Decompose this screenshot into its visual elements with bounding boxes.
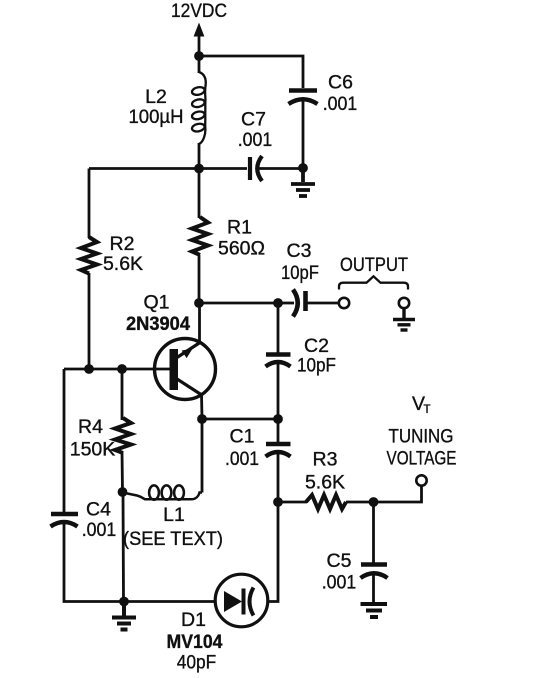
svg-text:2N3904: 2N3904 [126, 313, 190, 335]
svg-text:(SEE TEXT): (SEE TEXT) [123, 528, 223, 550]
ground (output return) [393, 309, 415, 330]
wire: node K down to bottom rail [122, 492, 125, 602]
svg-text:.001: .001 [225, 448, 259, 470]
svg-text:40pF: 40pF [177, 652, 217, 674]
wire: R3 to node J [346, 501, 374, 504]
wire: node E down to collector [198, 303, 201, 341]
node F [273, 298, 283, 308]
capacitor C2 [266, 355, 291, 367]
svg-text:.001: .001 [82, 519, 117, 541]
svg-text:150K: 150K [70, 439, 116, 461]
svg-text:VOLTAGE: VOLTAGE [387, 448, 457, 470]
svg-text:T: T [424, 404, 431, 416]
svg-text:.001: .001 [238, 129, 273, 151]
node B [194, 164, 204, 174]
svg-text:D1: D1 [181, 609, 206, 631]
wire: node D2 down to R4 [121, 369, 124, 420]
svg-text:560Ω: 560Ω [218, 238, 265, 260]
terminal: output hot [339, 298, 349, 308]
resistor R2 [81, 237, 97, 274]
svg-text:MV104: MV104 [167, 631, 223, 653]
terminal: output ground side [399, 298, 409, 308]
svg-text:L2: L2 [145, 86, 167, 108]
wire: node G to node H [202, 418, 278, 421]
wire: C2 to node H [277, 363, 280, 419]
capacitor C4 [51, 514, 79, 527]
capacitor C6 [289, 91, 318, 105]
svg-text:C7: C7 [241, 109, 266, 131]
wire: node J to tuning terminal [374, 486, 422, 502]
svg-text:.001: .001 [322, 572, 357, 594]
svg-text:R4: R4 [78, 416, 103, 438]
wire: L1 right to node G [201, 419, 204, 493]
wire: R1 to collector node E [198, 255, 201, 303]
terminal: tuning voltage [416, 475, 426, 485]
node E (collector node) [194, 298, 204, 308]
wire: C3 to output terminal [306, 302, 338, 305]
node J [369, 497, 379, 507]
wire: node I down to D1 [269, 502, 278, 602]
resistor R1 [192, 217, 208, 255]
svg-text:5.6K: 5.6K [103, 253, 143, 275]
resistor R4 [115, 418, 131, 453]
wire: C4 to bottom rail [64, 523, 214, 602]
inductor L2 [191, 56, 205, 169]
brace under OUTPUT [339, 276, 408, 289]
wire: node I to R3 [278, 501, 307, 504]
wire: C7 to node C [258, 167, 303, 170]
svg-text:C6: C6 [328, 72, 353, 94]
node: supply node [194, 51, 204, 61]
svg-text:12VDC: 12VDC [171, 0, 227, 22]
ground (bottom rail) [112, 602, 136, 630]
node L (bottom ground node) [119, 597, 129, 607]
capacitor C3 [293, 290, 306, 317]
svg-text:C1: C1 [230, 426, 255, 448]
resistor R3 [306, 495, 346, 509]
node I [273, 497, 283, 507]
node K (L1 left) [118, 487, 128, 497]
wire: node B down to R1 [198, 169, 201, 219]
svg-text:R3: R3 [313, 449, 338, 471]
wire: supply node to C6 top [199, 56, 303, 88]
svg-text:L1: L1 [163, 504, 185, 526]
wire: top horizontal rail (node B to C7) [89, 167, 247, 170]
node H [273, 414, 283, 424]
wire: C5 to ground [372, 575, 375, 602]
wire: node E to node F [199, 302, 278, 305]
node G (emitter node) [197, 414, 207, 424]
wire: R4 to node K [121, 452, 124, 492]
12VDC supply arrow [198, 34, 201, 56]
wire: C1 to node I [277, 453, 280, 502]
transistor Q1 [155, 339, 216, 400]
diode D1 (varactor) [215, 574, 268, 627]
wire: left rail down to R2 [88, 169, 91, 239]
node D2 (base / R4) [117, 364, 127, 374]
svg-text:TUNING: TUNING [389, 426, 454, 448]
ground (below node C) [291, 168, 315, 196]
wire: node F down to C2 [277, 303, 280, 353]
svg-text:C4: C4 [86, 499, 111, 521]
svg-text:R2: R2 [110, 233, 135, 255]
svg-text:Q1: Q1 [143, 292, 169, 314]
wire: node F to C3 [278, 302, 294, 305]
svg-text:C5: C5 [327, 550, 352, 572]
wire: emitter down to node G [200, 394, 203, 419]
svg-text:C3: C3 [287, 240, 312, 262]
wire: R2 to base node [88, 273, 91, 369]
wire: C6 bottom to node C [302, 101, 305, 168]
svg-text:.001: .001 [323, 93, 358, 115]
capacitor C5 [361, 565, 388, 579]
svg-text:100µH: 100µH [129, 106, 184, 128]
wire: node J down to C5 [372, 502, 375, 563]
node D (base / R2) [84, 364, 94, 374]
svg-text:5.6K: 5.6K [305, 472, 345, 494]
wire: base node left leg down to C4 [63, 369, 66, 513]
wire: node H to C1 [277, 419, 280, 442]
ground (below C5) [361, 604, 388, 617]
svg-text:10pF: 10pF [297, 355, 336, 377]
capacitor C7 [250, 156, 262, 181]
wire: base lead [64, 368, 170, 371]
svg-text:10pF: 10pF [281, 262, 319, 284]
node C [298, 163, 308, 173]
inductor L1 [123, 485, 203, 499]
svg-text:OUTPUT: OUTPUT [340, 254, 408, 276]
capacitor C1 [266, 444, 291, 457]
svg-text:R1: R1 [227, 217, 252, 239]
